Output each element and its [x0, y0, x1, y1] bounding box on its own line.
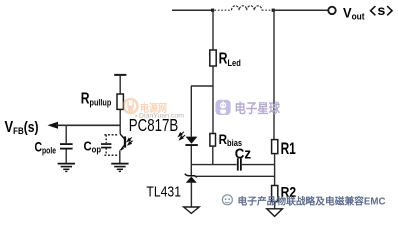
wire top rail right solid segment to output terminal	[273, 9, 328, 11]
wire LED cathode down to TL431 cathode	[190, 146, 192, 175]
wire top rail left solid segment	[172, 9, 214, 11]
svg-text:电子星球: 电子星球	[235, 101, 281, 116]
capacitor Cpole	[60, 143, 73, 145]
resistor R1	[272, 140, 278, 154]
wire collector feed of opto transistor	[119, 125, 121, 134]
wire opto LED branch vertical (anode node down to LED)	[190, 86, 192, 137]
resistor Rbias	[210, 134, 216, 147]
wire TL431 anode to ground	[190, 183, 192, 207]
svg-text:R1: R1	[281, 140, 296, 158]
svg-text:Rpullup: Rpullup	[81, 90, 112, 107]
wire R2 bottom to ground	[274, 202, 276, 209]
resistor R2	[272, 186, 278, 202]
watermark Electronics-Planet lavender logo	[216, 100, 231, 115]
capacitor Cop dashed parasitic loop	[104, 135, 118, 155]
ground (open triangle) below R2	[267, 209, 283, 217]
wire Rbias bottom to cathode net	[212, 146, 214, 165]
svg-text:RLed: RLed	[219, 51, 241, 69]
wire anode node horizontal stub to LED branch	[191, 85, 213, 87]
wire VFB to pullup junction	[56, 124, 120, 126]
wire emitter down to ground	[119, 150, 121, 163]
wire RLed column top (rail to resistor)	[212, 10, 214, 50]
wire R1 bottom to R2 top (divider node)	[274, 154, 276, 186]
TL431 U2 shunt regulator (zener-style: bent bar + triangle)	[185, 174, 197, 178]
phototransistor incident light arrows	[127, 137, 132, 144]
svg-text:Cop: Cop	[84, 138, 102, 154]
node junction dot right on Vout rail	[272, 9, 275, 12]
terminal Vout (open circle)	[328, 7, 335, 14]
svg-text:Cz: Cz	[235, 146, 251, 163]
wire supply bar to Rpullup	[119, 76, 121, 94]
transistor Q1 phototransistor of PC817B	[120, 134, 125, 150]
watermark DianYuan orange logo ring with plug	[124, 99, 138, 113]
inductor L (dotted coil)	[232, 6, 262, 10]
node VFB arrow	[48, 122, 59, 129]
svg-text:Cpole: Cpole	[35, 139, 57, 155]
LED light emission arrows	[179, 132, 185, 140]
wire RLed bottom to anode node	[212, 66, 214, 86]
wire dotted lead left of inductor	[215, 9, 232, 11]
ground (earth) below opto emitter	[111, 164, 128, 172]
resistor Rpullup	[117, 94, 123, 109]
wire TL431 ref to divider node	[196, 175, 274, 177]
ground (earth) below Cpole	[58, 164, 75, 172]
svg-text:DianYuan.com: DianYuan.com	[139, 113, 184, 119]
wire cathode net horizontal (to Cz left plate)	[191, 164, 236, 166]
wire Cpole branch from VFB wire	[65, 125, 67, 143]
capacitor Cop plates	[101, 143, 111, 145]
svg-text:VFB(s): VFB(s)	[5, 119, 39, 137]
wire R1 column top (rail junction down to R1)	[273, 10, 275, 139]
ground (open triangle) below TL431	[184, 207, 200, 213]
svg-text:TL431: TL431	[146, 184, 181, 200]
power terminal bar above Rpullup	[114, 74, 126, 76]
node junction dot left on Vout rail	[211, 9, 214, 12]
wire Cpole bottom to ground	[65, 150, 67, 164]
svg-text:s: s	[377, 3, 385, 18]
svg-text:电子产品物联战略及电磁兼容EMC: 电子产品物联战略及电磁兼容EMC	[238, 195, 386, 208]
svg-text:Vout: Vout	[343, 4, 365, 21]
optocoupler LED D1 (PC817B diode, anode top)	[186, 137, 198, 144]
wire Cz right plate to divider node	[242, 164, 274, 166]
watermark bottom EMC logo	[222, 195, 232, 205]
capacitor Cz	[237, 158, 239, 170]
wire Rpullup bottom to VFB junction	[119, 109, 121, 125]
wire bias column (anode node down to Rbias)	[212, 86, 214, 134]
wire dotted lead right of inductor	[262, 9, 272, 11]
resistor RLed	[210, 50, 216, 66]
